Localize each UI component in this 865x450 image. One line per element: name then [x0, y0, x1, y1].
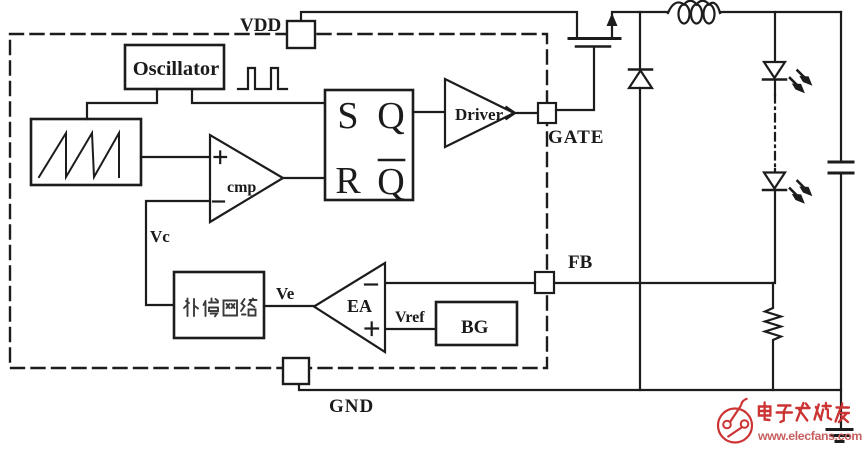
svg-text:GATE: GATE [548, 127, 604, 148]
wire cmp output to latch R input [283, 177, 325, 179]
Qbar overline [379, 159, 404, 162]
wire LED string to FB node [774, 190, 776, 283]
svg-text:Ve: Ve [276, 284, 295, 303]
wire dash-dot (more LEDs) [774, 95, 776, 169]
wire oscillator to sawtooth [87, 89, 157, 119]
svg-text:cmp: cmp [227, 179, 256, 196]
VDD pad [287, 21, 315, 48]
error amplifier EA [314, 263, 385, 352]
wire oscillator to latch S input [192, 89, 325, 103]
resistor R1 current sense [765, 283, 781, 390]
wire VDD to MOSFET drain [301, 12, 577, 37]
inductor L1 [668, 1, 720, 24]
IC boundary dashed box [10, 34, 547, 368]
wire GATE pad to MOSFET gate [556, 47, 594, 110]
svg-text:BG: BG [461, 317, 489, 338]
svg-text:Driver: Driver [455, 105, 504, 124]
GND pad [283, 358, 309, 384]
capacitor C1 [840, 12, 842, 160]
wire driver to GATE pad [514, 112, 538, 114]
watermark text 电子发烧友 glyph strokes [759, 403, 849, 423]
wire cmp - input / Vc net [146, 201, 210, 305]
FB pad [535, 272, 554, 293]
GATE pad [538, 103, 556, 123]
LED D2 [764, 62, 785, 78]
svg-text:VDD: VDD [240, 15, 281, 36]
svg-text:FB: FB [568, 252, 593, 273]
wire LED string [774, 81, 776, 95]
sawtooth generator block [31, 119, 141, 185]
svg-text:EA: EA [347, 296, 372, 316]
svg-text:Vc: Vc [150, 227, 170, 246]
LED D3 light arrows [790, 181, 806, 197]
wire FB net [554, 282, 773, 284]
LED D2 light arrows [790, 71, 806, 87]
svg-text:R: R [335, 160, 361, 202]
wire latch Q to driver [413, 111, 445, 113]
error amplifier EA wires [385, 282, 535, 284]
svg-text:www.elecfans.com: www.elecfans.com [757, 429, 862, 443]
wire sawtooth to cmp + input [141, 156, 210, 158]
sawtooth waveform [39, 133, 119, 177]
diode D1 [629, 68, 652, 71]
wire top rail switch node [612, 11, 668, 13]
clock pulse waveform [238, 68, 287, 89]
compensation network block [174, 272, 264, 338]
oscillator block [125, 45, 224, 89]
comparator cmp [210, 135, 283, 222]
wire top rail right [720, 11, 841, 13]
driver buffer [445, 79, 514, 147]
SR latch U1 [325, 90, 413, 200]
watermark logo circle [718, 399, 752, 443]
wire bottom ground rail [299, 384, 841, 390]
svg-text:GND: GND [329, 396, 374, 417]
label compensation network 补偿网络 glyph strokes [184, 299, 257, 317]
svg-text:Oscillator: Oscillator [133, 58, 220, 80]
svg-text:Q: Q [377, 161, 404, 203]
svg-text:S: S [337, 95, 358, 137]
transistor M1 power MOSFET [569, 37, 620, 40]
wire diode branch [639, 12, 641, 69]
ground symbol [827, 428, 852, 431]
wire LED branch top [774, 12, 776, 62]
LED D3 [764, 173, 785, 189]
svg-text:Vref: Vref [395, 309, 425, 326]
svg-text:Q: Q [377, 95, 404, 137]
BG block bandgap [436, 302, 517, 345]
